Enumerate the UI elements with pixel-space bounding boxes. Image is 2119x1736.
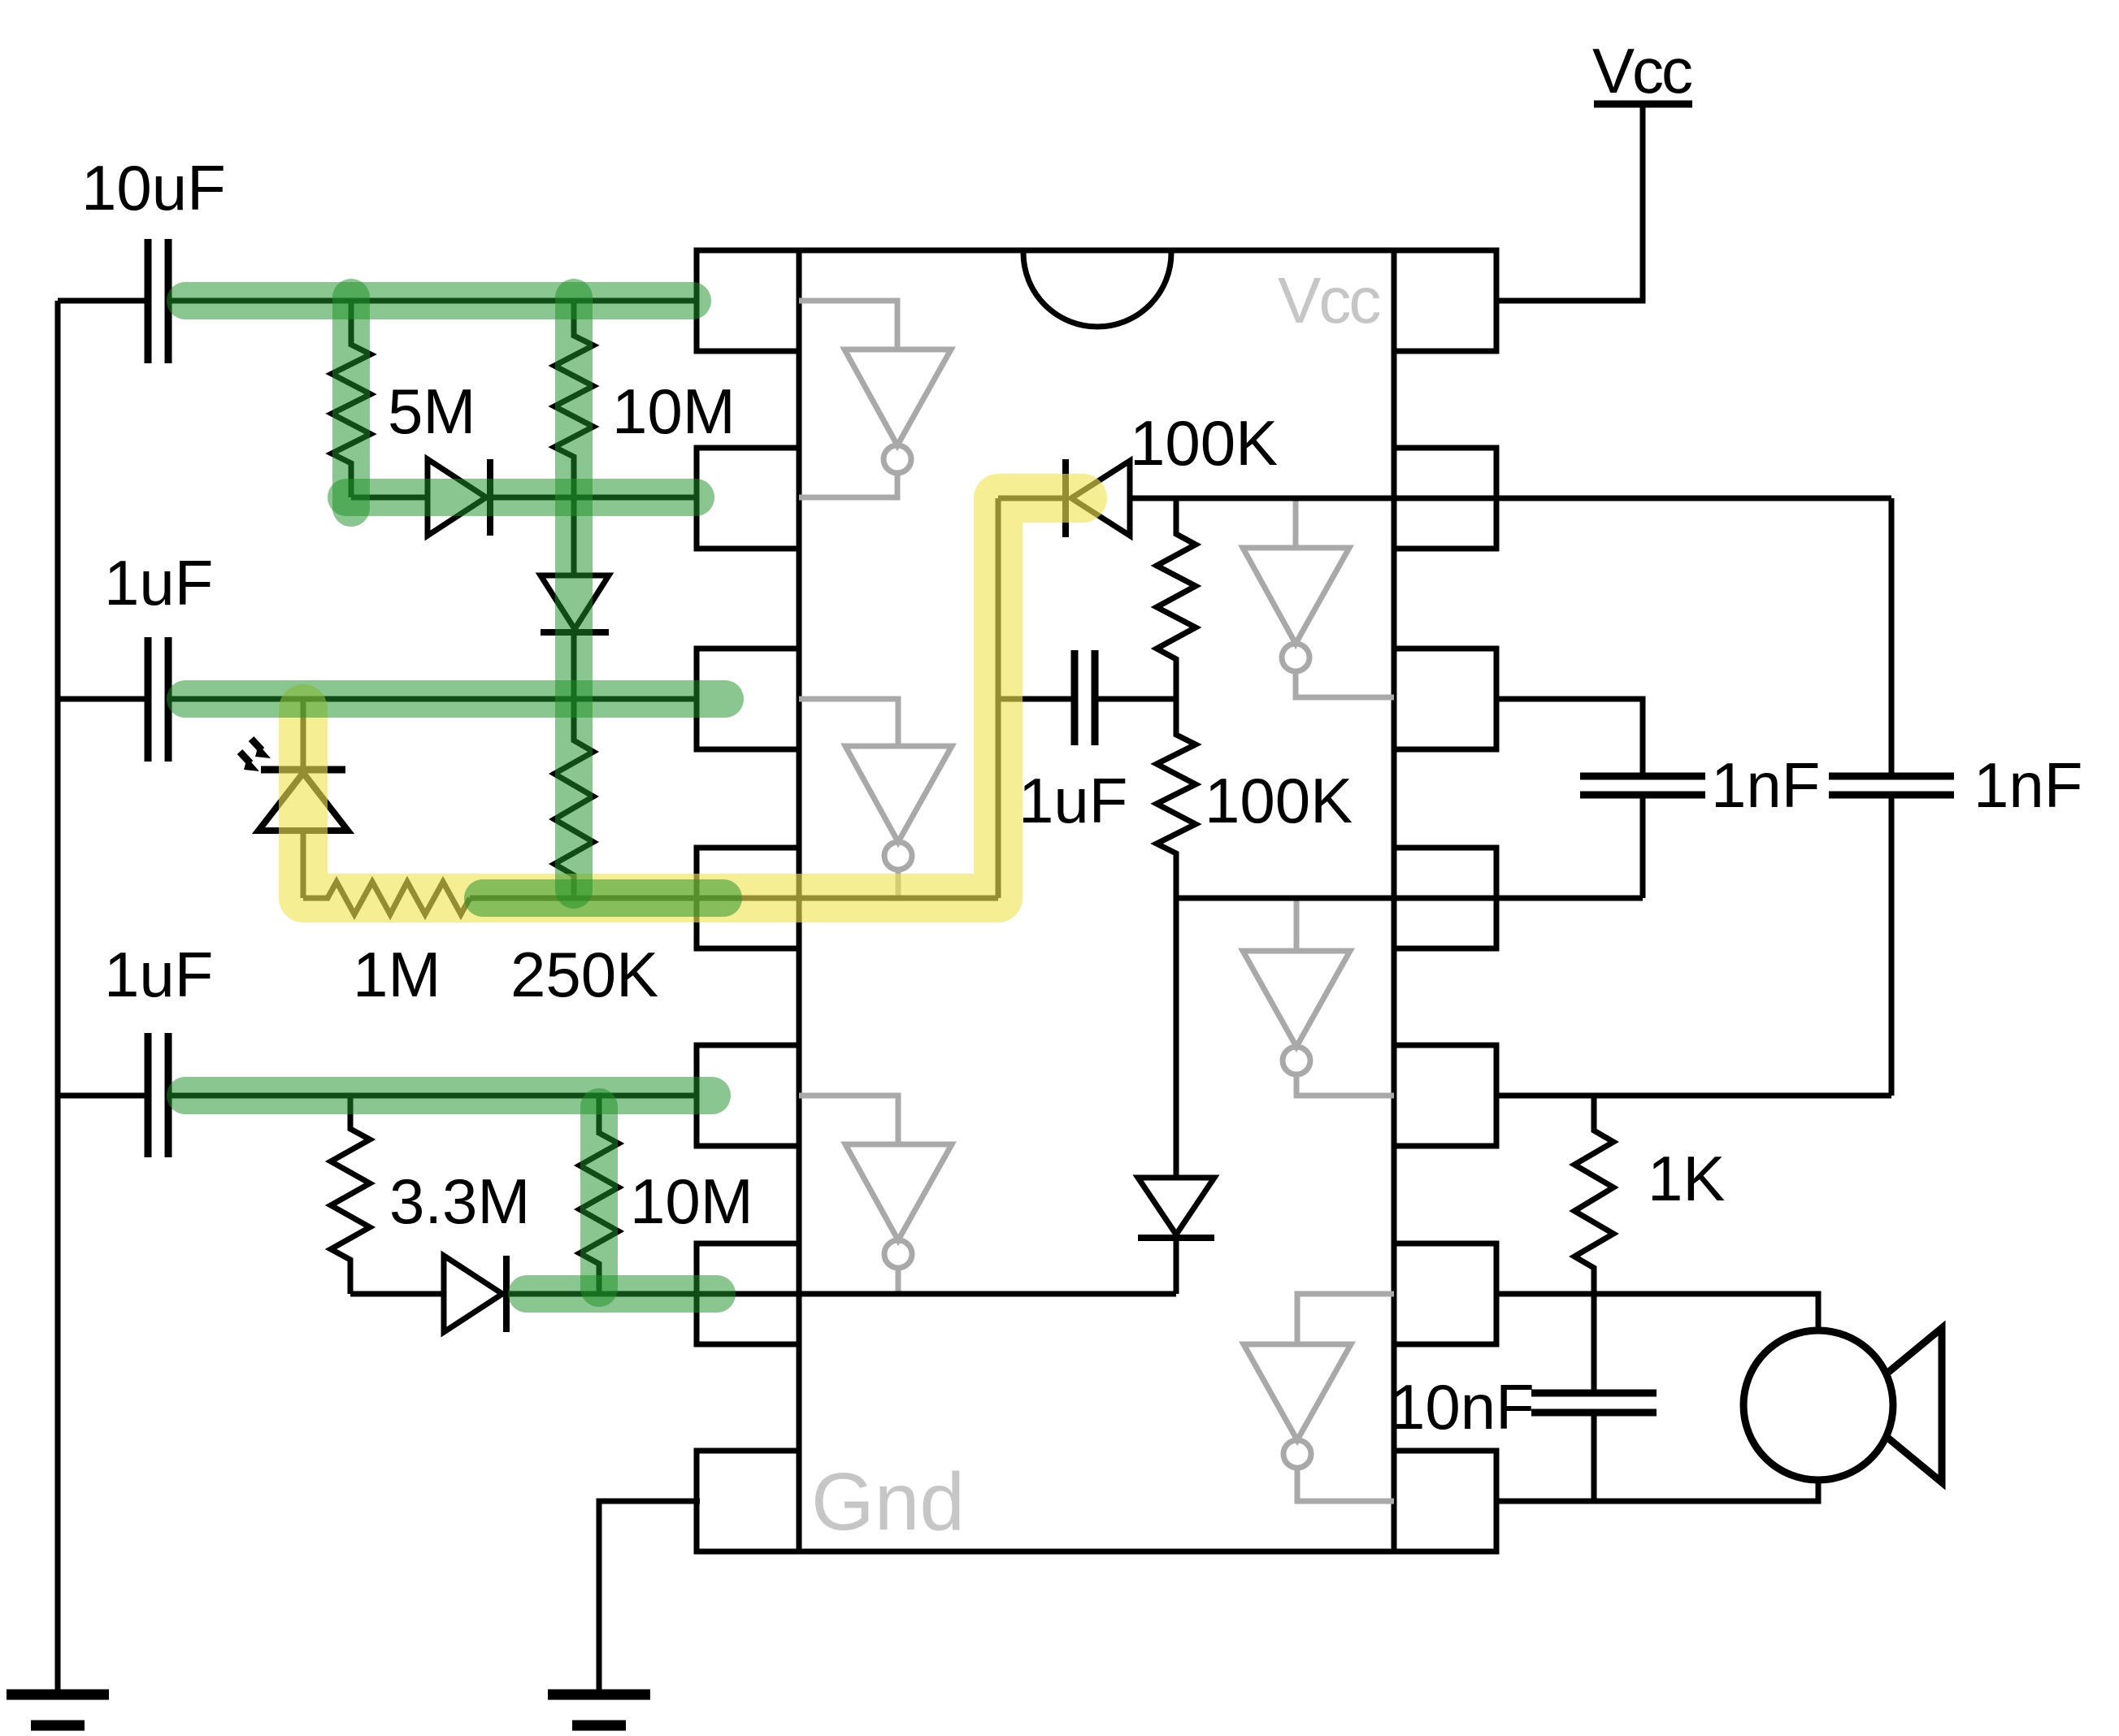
inverter U1A (gray) pins 1-2 (799, 301, 951, 497)
label Gnd (gray, inside IC) (811, 1456, 965, 1547)
inverter U1E (gray) pins 11-10 (1243, 900, 1394, 1096)
diode D2 (vertical, down) (541, 497, 609, 699)
wire: C3 to pin 5 (172, 1093, 697, 1099)
capacitor C2 1uF (58, 637, 168, 762)
pin 14 box (Vcc) (1394, 250, 1496, 351)
wire: node to D3 (998, 496, 1062, 501)
wire: C1 to pin 1 (172, 298, 697, 304)
wire: D3 to pin 13 row and out to 1nF C6 (1130, 496, 1891, 501)
diode D3 (points left) (1066, 459, 1130, 537)
wire: R5 bottom to D5 (350, 1291, 444, 1297)
label C1 10uF (81, 152, 226, 224)
capacitor C6 1nF (1829, 776, 1954, 1096)
resistor R9 1K (1574, 1096, 1613, 1294)
svg-text:10uF: 10uF (81, 152, 226, 224)
capacitor C7 10nF (1531, 1294, 1657, 1501)
pin 4 box (697, 848, 799, 948)
svg-text:1M: 1M (353, 939, 441, 1010)
inverter U1B (gray) pins 3-4 (799, 699, 952, 898)
svg-text:Gnd: Gnd (811, 1456, 965, 1547)
label R9 1K (1648, 1143, 1725, 1214)
label C7 10nF (1390, 1371, 1535, 1443)
label Vcc (gray, inside IC) (1278, 264, 1379, 336)
label C4 1uF (1018, 765, 1127, 836)
speaker SP1 (1743, 1328, 1942, 1482)
pin 5 box (697, 1045, 799, 1146)
pin 10 box (1394, 1045, 1496, 1146)
label R6 10M (630, 1165, 753, 1237)
wire: R8 junction down to D4 (1174, 898, 1179, 1178)
label R2 10M (612, 375, 736, 447)
resistor R1 5M (332, 301, 371, 497)
pin 9 box (1394, 1243, 1496, 1344)
svg-text:1nF: 1nF (1711, 749, 1820, 821)
highlight: green R1 (332, 297, 370, 508)
svg-text:3.3M: 3.3M (389, 1165, 530, 1237)
highlight: green R6 (580, 1107, 618, 1288)
wire: pin 10 to 1nF C6 bottom (1496, 1093, 1891, 1099)
capacitor C1 10uF (58, 239, 168, 363)
label R4 1M (353, 939, 441, 1010)
highlight: green R2-D2-R3 column (555, 297, 593, 890)
svg-text:100K: 100K (1130, 407, 1278, 479)
svg-text:1K: 1K (1648, 1143, 1725, 1214)
highlight: green pin 5 net (185, 1077, 712, 1114)
ground GND2 (548, 1695, 650, 1725)
pin 13 box (1394, 448, 1496, 549)
inverter U1D (gray) pins 13-12 (1243, 498, 1394, 697)
label C3 1uF (104, 939, 213, 1010)
svg-text:10M: 10M (630, 1165, 753, 1237)
label R8 100K (1205, 765, 1353, 836)
pin 2 box (697, 448, 799, 549)
svg-text:Vcc: Vcc (1592, 35, 1691, 106)
label R3 250K (510, 939, 658, 1010)
svg-text:10nF: 10nF (1390, 1371, 1535, 1443)
inverter U1F (gray) pins 9-8 (1244, 1294, 1394, 1501)
label R1 5M (388, 375, 475, 447)
wire: pin 8 to speaker (1496, 1480, 1818, 1501)
svg-text:250K: 250K (510, 939, 658, 1010)
svg-text:10M: 10M (612, 375, 736, 447)
resistor R2 10M (554, 301, 593, 497)
svg-text:100K: 100K (1205, 765, 1353, 836)
svg-text:5M: 5M (388, 375, 475, 447)
highlight: green pin 6 net (527, 1275, 717, 1313)
wire: D5 to pin 6 and through IC to D4 (510, 1291, 1176, 1297)
IC U1 body (hex inverter) (799, 250, 1394, 1552)
svg-text:1uF: 1uF (104, 547, 213, 618)
resistor R3 250K (554, 699, 593, 898)
wire: C2 to pin 3 (172, 697, 697, 702)
svg-text:1nF: 1nF (1974, 749, 2082, 821)
ground GND1 (left rail) (7, 1695, 109, 1725)
highlight: green pin 4 net (483, 879, 723, 917)
wire: pin 7 to ground (599, 1501, 700, 1695)
wire: pin 9 to speaker (1496, 1294, 1818, 1330)
svg-text:1uF: 1uF (1018, 765, 1127, 836)
wire: D1 to pin 2 (493, 495, 697, 501)
pin 6 box (697, 1243, 799, 1344)
label C6 1nF (1974, 749, 2082, 821)
resistor R5 3.3M (331, 1096, 370, 1294)
wire: R4 to pin 4 and through to feedback node (yellow path) (470, 896, 998, 901)
photodiode LED1 (240, 699, 348, 898)
pin 8 box (1394, 1451, 1496, 1552)
wire: R1 bottom to D1 (351, 495, 428, 501)
highlight: green pin 2 net (346, 479, 696, 516)
label R5 3.3M (389, 1165, 530, 1237)
resistor R7 100K (upper) (1157, 498, 1196, 699)
wire: pin 13 net vertical to 1nF C6 (1889, 498, 1895, 773)
svg-text:1uF: 1uF (104, 939, 213, 1010)
pin 3 box (697, 649, 799, 749)
highlight: green pin 1 net (185, 282, 693, 319)
resistor R8 100K (lower) (1157, 699, 1196, 898)
capacitor C3 1uF (58, 1033, 168, 1157)
wire: left ground rail (55, 301, 61, 1695)
highlight: yellow trace (LED1 - R4 - pin4 - feedback - D3) (303, 498, 1083, 898)
label 100K (top) (1130, 407, 1278, 479)
svg-text:Vcc: Vcc (1278, 264, 1379, 336)
wire: pin 12 to 1nF C5 (1496, 699, 1643, 773)
diode D5 (444, 1256, 506, 1332)
pin 1 box (697, 250, 799, 351)
pin 7 box (Gnd) (697, 1451, 799, 1552)
label C2 1uF (104, 547, 213, 618)
Vcc supply symbol (1592, 35, 1692, 106)
pin 11 box (1394, 848, 1496, 948)
inverter U1C (gray) pins 5-6 (799, 1096, 952, 1294)
wire: R8 bottom to pin 11 row and out to 1nF C5 (1175, 896, 1643, 901)
capacitor C5 1nF (1580, 776, 1705, 898)
resistor R4 1M (303, 882, 470, 914)
label C5 1nF (1711, 749, 1820, 821)
diode D1 (428, 459, 490, 536)
pin 12 box (1394, 649, 1496, 749)
resistor R6 10M (580, 1096, 619, 1294)
diode D4 (vertical, down) (1138, 1178, 1214, 1294)
wire: pin 14 to Vcc (1496, 106, 1643, 301)
capacitor C4 1uF (feedback) (998, 650, 1176, 745)
wire: feedback node vertical (yellow path) (996, 498, 1001, 898)
highlight: green pin 3 net (185, 680, 725, 718)
